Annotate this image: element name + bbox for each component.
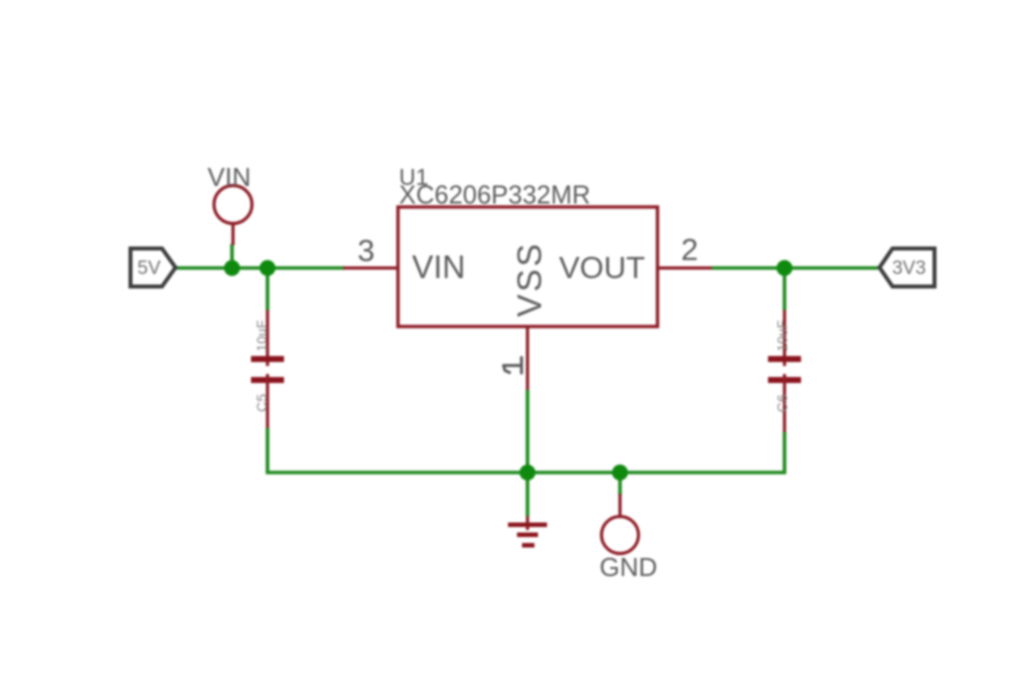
capacitor C5 top plate — [251, 356, 284, 362]
junction dot at 5V/VIN — [224, 260, 240, 276]
svg-text:VIN: VIN — [412, 249, 465, 285]
junction dot at ground — [520, 465, 536, 481]
svg-text:10uF: 10uF — [775, 320, 790, 352]
capacitor C6 bottom lead — [783, 374, 786, 432]
wire pin1 net — [526, 390, 530, 473]
pin 2 lead — [658, 266, 713, 269]
svg-text:VSS: VSS — [511, 241, 549, 317]
wire GND pin stub — [618, 473, 622, 496]
pin VIN stub — [231, 224, 234, 245]
junction dot at C5 top — [260, 260, 276, 276]
svg-text:2: 2 — [681, 232, 698, 267]
wire VIN pin stub — [230, 244, 234, 268]
capacitor C6 top plate — [768, 356, 801, 362]
svg-text:VIN: VIN — [208, 162, 251, 192]
svg-text:VOUT: VOUT — [559, 250, 645, 285]
junction dot at C6 top — [777, 260, 793, 276]
pin 3 lead — [343, 266, 398, 269]
capacitor C5 bottom plate — [251, 377, 284, 383]
svg-text:5V: 5V — [137, 258, 161, 279]
ground bar 3 — [522, 543, 535, 548]
ground stem — [526, 516, 529, 530]
wire bottom rail (C5 bottom, ground rail, C6 bottom) — [268, 428, 785, 473]
svg-text:C5: C5 — [254, 394, 270, 413]
svg-text:3: 3 — [358, 233, 375, 268]
IC U1 (XC6206P332MR regulator) body — [398, 207, 658, 327]
wire ground symbol stub — [526, 473, 530, 517]
svg-text:C6: C6 — [774, 394, 790, 413]
pin 1 lead — [526, 327, 529, 391]
wire top rail right (pin2 to 3V3) — [712, 266, 878, 270]
junction dot at GND pin — [612, 465, 628, 481]
svg-text:3V3: 3V3 — [892, 258, 926, 279]
capacitor C5 top lead — [266, 310, 269, 366]
svg-text:10uF: 10uF — [255, 320, 270, 352]
capacitor C6 bottom plate — [768, 377, 801, 383]
wire top rail left (5V to pin3) — [175, 266, 344, 270]
supply flag 5V — [131, 249, 176, 287]
label pin number 1 (rotated) — [504, 358, 522, 374]
svg-text:XC6206P332MR: XC6206P332MR — [399, 182, 590, 210]
pin GND circle — [602, 517, 639, 554]
pin VIN circle — [214, 186, 252, 224]
svg-text:GND: GND — [600, 552, 658, 582]
wire C6 top branch — [783, 268, 787, 310]
ground bar 2 — [517, 533, 538, 538]
ground bar 1 — [508, 523, 547, 528]
wire C5 top branch — [266, 268, 270, 310]
capacitor C5 bottom lead — [266, 374, 269, 428]
supply flag 3V3 — [880, 249, 935, 287]
capacitor C6 top lead — [783, 310, 786, 366]
pin GND stub — [618, 494, 621, 516]
